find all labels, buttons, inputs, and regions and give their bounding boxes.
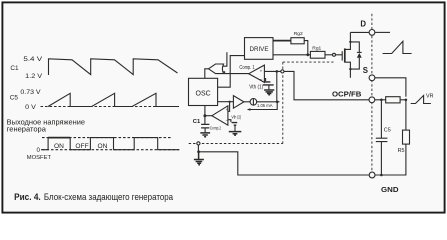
current direction arrow under source [249, 102, 277, 110]
svg-text:+: + [260, 68, 263, 73]
junction dot external ground [197, 150, 200, 153]
pin circle chip feedback node [281, 70, 284, 73]
junction dot source branch [349, 68, 351, 70]
wire down to R5 [405, 100, 407, 130]
block DRIVE [245, 38, 274, 60]
wire diode branch top [350, 42, 359, 52]
pin circle gate [333, 53, 336, 56]
capacitor C1 plates [201, 124, 209, 128]
junction dot C1 node [203, 114, 206, 117]
svg-text:OSC: OSC [196, 90, 211, 97]
svg-text:0: 0 [37, 147, 41, 154]
wire node down to current source output [276, 71, 278, 101]
svg-text:+: + [226, 107, 229, 112]
wire Rg1 to gate pin [325, 54, 333, 56]
svg-text:Выходное напряжение: Выходное напряжение [7, 119, 85, 126]
resistor Rg2 [291, 38, 304, 44]
svg-text:1.2 V: 1.2 V [25, 73, 43, 80]
capacitor C5 bottom lead [380, 142, 382, 175]
wire buffer to current source [244, 101, 250, 103]
svg-text:DRIVE: DRIVE [250, 46, 269, 53]
OR gate U1 (pointing left) [209, 64, 224, 74]
wire Comp.2 plus input up to OSC output line [228, 102, 230, 112]
svg-text:Vth (1): Vth (1) [249, 85, 263, 91]
svg-text:VR: VR [426, 93, 434, 99]
capacitor C5 plates [376, 138, 388, 141]
svg-text:S: S [363, 66, 368, 75]
svg-text:–: – [226, 118, 229, 123]
ground symbol external [194, 152, 204, 165]
wire OR upper input stub [223, 52, 227, 66]
pin circle S [369, 75, 375, 81]
diode D1 triangle [357, 53, 362, 58]
transistor Q1 drain lead [345, 32, 350, 49]
transistor Q1 channel bar [344, 48, 346, 62]
svg-text:R5: R5 [398, 148, 405, 154]
junction dot C5 top [380, 99, 383, 102]
wire diode anode to source [350, 58, 359, 69]
junction dot S sense node [405, 99, 408, 102]
wire gate pin to MOSFET gate [336, 54, 343, 56]
resistor OCP filter [386, 97, 400, 103]
svg-text:D: D [360, 20, 366, 29]
pin circle OCP/FB [369, 97, 375, 103]
junction dot Comp.1 plus node [276, 70, 279, 73]
wire R5 bottom to rail [375, 144, 406, 175]
svg-text:0.73 V: 0.73 V [20, 89, 41, 96]
svg-text:C5: C5 [10, 94, 19, 101]
svg-text:Comp. 1: Comp. 1 [239, 65, 254, 71]
waveform icon at VR [411, 95, 431, 103]
wire OR-gate output to OSC top [205, 69, 209, 79]
wire Comp.1 plus input to pin [264, 70, 280, 72]
current source I1 circle [250, 99, 257, 106]
waveform C5 ramp trace [48, 93, 179, 106]
svg-text:MOSFET: MOSFET [27, 155, 52, 161]
comparator Comp.1 (pointing left) [249, 65, 265, 82]
svg-text:Rg1: Rg1 [312, 45, 321, 51]
svg-text:ON: ON [98, 143, 108, 150]
MOSFET gate waveform bottom dashed reference [42, 149, 179, 151]
wire pin D stub right [375, 31, 390, 33]
waveform C1 sawtooth trace [49, 59, 178, 75]
arrowhead of current arrow [247, 108, 251, 111]
svg-text:Vth (2): Vth (2) [231, 115, 241, 120]
ground at Vth2 [229, 132, 242, 136]
resistor R5 [403, 130, 410, 144]
wire current source to plus node [257, 101, 280, 103]
junction dot gate drive node [306, 53, 309, 56]
battery Vth2 stem [234, 126, 236, 132]
wire drain to pin D [350, 31, 369, 33]
wire DRIVE to Rg1 [273, 54, 310, 56]
svg-text:C1: C1 [10, 65, 19, 72]
wire DRIVE to Rg2 [273, 40, 291, 42]
chip boundary dashed left vertical [282, 62, 284, 143]
svg-text:Блок-схема задающего генератор: Блок-схема задающего генератора [44, 191, 174, 202]
svg-text:1.05 mA: 1.05 mA [257, 103, 273, 108]
transistor Q1 gate bar [341, 51, 343, 60]
svg-text:OFF: OFF [75, 143, 88, 150]
pin circle GND [369, 172, 375, 178]
wire pin S to sense network [375, 78, 406, 97]
wire Comp.1 minus input to Vth1 [264, 79, 265, 82]
diode D1 cathode bar [357, 51, 362, 53]
wire OSC bottom to C1 node [204, 106, 206, 125]
comparator Comp.2 (pointing left) [212, 106, 228, 125]
resistor Rg1 [310, 51, 325, 58]
wire Rg2 to gate node [304, 41, 308, 55]
waveform icon at D [383, 41, 412, 53]
junction dot drain branch [349, 41, 351, 43]
chip boundary dashed bottom horizontal [189, 143, 283, 145]
wire chip pin to external ground junction [197, 145, 199, 152]
svg-text:OCP/FB: OCP/FB [332, 89, 361, 98]
svg-text:5.4 V: 5.4 V [23, 56, 43, 63]
package boundary dashed vertical [371, 14, 373, 172]
wire OR lower input from Comp.1 output [223, 72, 249, 74]
first pulse top emphasis [48, 137, 70, 139]
svg-text:Rg2: Rg2 [294, 31, 303, 37]
svg-text:GND: GND [381, 185, 399, 194]
svg-text:C1: C1 [193, 119, 201, 125]
wire Comp.2 output to C1 node [205, 115, 212, 117]
battery Vth1 stem [268, 85, 270, 89]
pin circle chip ground [197, 142, 200, 145]
current source inner bar [252, 99, 254, 105]
capacitor C1 stem [204, 128, 206, 132]
chip boundary dashed top horizontal [283, 61, 334, 63]
svg-text:C5: C5 [384, 128, 391, 134]
svg-text:Рис. 4.: Рис. 4. [14, 191, 41, 202]
wire Comp.2 minus input to Vth2 [228, 120, 231, 122]
wire OSC lower output to buffer input [218, 101, 234, 103]
buffer amplifier (triangle) [233, 96, 244, 109]
svg-text:ON: ON [54, 143, 64, 150]
wire ground junction to bottom rail [199, 152, 370, 175]
junction dot C5 bottom [380, 174, 383, 177]
wire chip pin to OCP/FB pin [284, 71, 369, 99]
junction dot current source node [276, 101, 279, 104]
battery Vth1 plates [263, 82, 274, 85]
wire resistor to S branch [400, 99, 406, 101]
svg-text:–: – [260, 77, 263, 82]
svg-text:генератора: генератора [7, 126, 46, 133]
junction dot buffer line [229, 101, 231, 103]
svg-text:0 V: 0 V [25, 104, 36, 111]
wire OSC upper output to DRIVE input [218, 56, 245, 88]
battery Vth2 plates [232, 123, 238, 126]
ground at C1 [200, 133, 210, 137]
waveform C5 zero reference dashed line [41, 106, 180, 108]
transistor Q1 source lead [345, 62, 350, 78]
svg-text:Comp.2: Comp.2 [210, 125, 221, 130]
wire OCP/FB pin to resistor [375, 99, 386, 101]
MOSFET gate square-wave trace [41, 138, 179, 150]
block OSC [189, 78, 218, 105]
ground at Vth1 [264, 90, 274, 95]
capacitor C5 top lead [380, 100, 382, 138]
pin circle D [369, 30, 375, 36]
MOSFET gate waveform top dashed reference [42, 137, 173, 139]
